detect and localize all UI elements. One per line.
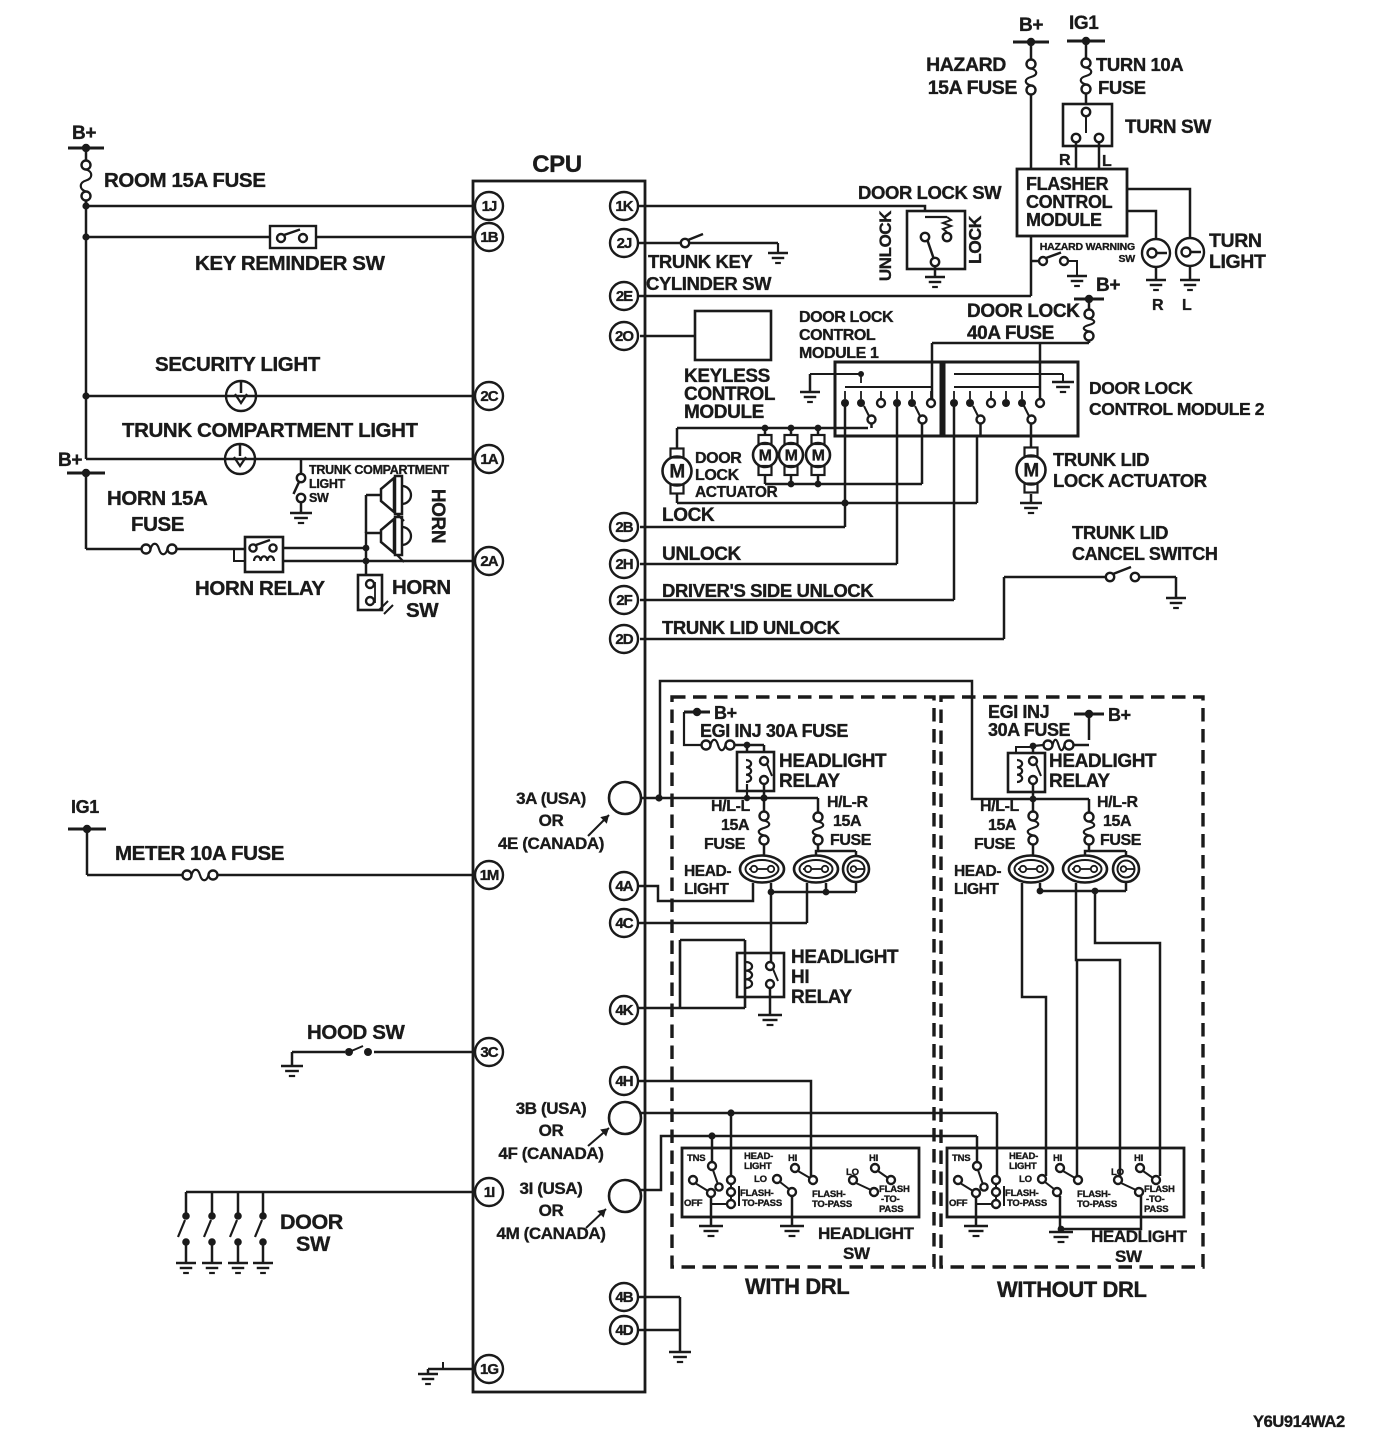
svg-text:LIGHT: LIGHT [954,881,999,898]
svg-text:UNLOCK: UNLOCK [876,210,895,281]
svg-text:4A: 4A [615,878,633,895]
svg-text:RELAY: RELAY [1049,771,1110,792]
svg-text:H/L-R: H/L-R [1097,794,1139,811]
svg-text:15A: 15A [988,817,1017,834]
svg-text:TNS: TNS [687,1153,705,1164]
svg-text:MODULE 1: MODULE 1 [799,345,879,362]
svg-text:WITHOUT DRL: WITHOUT DRL [997,1277,1147,1302]
svg-text:TO-PASS: TO-PASS [1077,1199,1117,1210]
svg-text:15A: 15A [1103,813,1132,830]
svg-text:3I (USA): 3I (USA) [520,1179,583,1198]
svg-text:DOOR LOCK: DOOR LOCK [1089,378,1193,398]
svg-text:RELAY: RELAY [791,987,852,1008]
svg-text:2H: 2H [615,556,632,573]
svg-text:L: L [1102,153,1112,170]
svg-text:DOOR: DOOR [695,450,742,467]
svg-text:SW: SW [843,1244,871,1263]
svg-text:2F: 2F [616,592,632,609]
svg-text:L: L [1182,297,1192,314]
svg-text:HORN 15A: HORN 15A [107,487,208,510]
svg-text:LO: LO [754,1174,767,1185]
svg-text:HEADLIGHT: HEADLIGHT [1049,751,1157,772]
svg-text:1A: 1A [480,451,498,468]
svg-text:15A: 15A [721,817,750,834]
svg-text:HAZARD WARNING: HAZARD WARNING [1040,241,1135,253]
svg-text:TNS: TNS [952,1153,970,1164]
svg-text:DOOR: DOOR [280,1210,344,1234]
svg-text:LOCK: LOCK [965,215,985,264]
svg-text:15A: 15A [833,813,862,830]
svg-text:TO-PASS: TO-PASS [742,1198,782,1209]
svg-text:TURN SW: TURN SW [1125,117,1211,138]
svg-text:2B: 2B [615,519,633,536]
svg-text:2J: 2J [617,235,632,252]
svg-text:4M (CANADA): 4M (CANADA) [497,1224,606,1243]
svg-text:B+: B+ [714,703,737,723]
svg-text:FUSE: FUSE [1098,77,1146,98]
svg-text:LIGHT: LIGHT [1009,1161,1037,1172]
svg-text:B+: B+ [1096,275,1120,296]
svg-text:B+: B+ [1019,15,1043,36]
svg-text:15A FUSE: 15A FUSE [928,77,1018,99]
svg-text:2A: 2A [480,553,498,570]
svg-text:2O: 2O [615,328,634,345]
svg-text:2E: 2E [616,288,633,305]
svg-text:3A (USA): 3A (USA) [516,789,586,808]
svg-text:1K: 1K [615,198,633,215]
svg-text:PASS: PASS [879,1204,903,1215]
svg-text:4E (CANADA): 4E (CANADA) [498,834,604,853]
svg-text:4D: 4D [615,1322,633,1339]
svg-text:TRUNK COMPARTMENT LIGHT: TRUNK COMPARTMENT LIGHT [122,419,418,442]
svg-text:B+: B+ [1108,705,1131,725]
svg-text:HEADLIGHT: HEADLIGHT [818,1224,915,1243]
svg-text:HORN: HORN [392,576,451,599]
svg-text:OFF: OFF [684,1198,703,1209]
svg-text:1J: 1J [482,198,497,215]
svg-text:TRUNK KEY: TRUNK KEY [648,251,753,272]
svg-text:M: M [1023,461,1038,482]
svg-text:R: R [1152,297,1164,314]
svg-text:H/L-R: H/L-R [827,794,869,811]
svg-text:R: R [1059,152,1071,169]
svg-text:H/L-L: H/L-L [711,798,751,815]
svg-text:LOCK: LOCK [695,467,740,484]
svg-text:DOOR LOCK SW: DOOR LOCK SW [858,182,1002,203]
svg-text:TO-PASS: TO-PASS [812,1199,852,1210]
svg-text:PASS: PASS [1144,1204,1168,1215]
svg-text:1G: 1G [480,1361,498,1378]
svg-text:4F (CANADA): 4F (CANADA) [498,1144,603,1163]
svg-text:KEY REMINDER SW: KEY REMINDER SW [195,252,386,275]
svg-text:MODULE: MODULE [1026,210,1102,230]
svg-text:LIGHT: LIGHT [309,477,346,491]
svg-text:TRUNK LID UNLOCK: TRUNK LID UNLOCK [662,617,841,638]
svg-text:2C: 2C [480,388,498,405]
svg-text:M: M [669,462,684,483]
svg-text:CPU: CPU [532,151,581,178]
svg-text:1M: 1M [480,867,499,884]
svg-text:TO-PASS: TO-PASS [1007,1198,1047,1209]
svg-text:DOOR LOCK: DOOR LOCK [967,301,1080,322]
svg-text:3C: 3C [480,1044,498,1061]
svg-text:HEAD-: HEAD- [684,863,731,880]
svg-text:HAZARD: HAZARD [926,54,1006,76]
svg-text:FUSE: FUSE [1100,832,1142,849]
svg-text:RELAY: RELAY [779,771,840,792]
svg-text:OR: OR [539,1201,564,1220]
svg-text:LIGHT: LIGHT [1209,251,1266,273]
svg-text:H/L-L: H/L-L [980,798,1020,815]
svg-text:HEADLIGHT: HEADLIGHT [779,751,887,772]
svg-text:LIGHT: LIGHT [744,1161,772,1172]
svg-text:CONTROL: CONTROL [799,327,876,344]
svg-text:HI: HI [869,1153,878,1164]
svg-text:HI: HI [1053,1153,1062,1164]
svg-text:HOOD SW: HOOD SW [307,1021,405,1044]
svg-text:IG1: IG1 [1069,13,1099,34]
svg-text:OR: OR [539,811,564,830]
svg-text:CYLINDER SW: CYLINDER SW [646,273,772,294]
svg-text:B+: B+ [58,450,82,471]
svg-text:30A FUSE: 30A FUSE [988,720,1071,740]
svg-text:SW: SW [296,1232,331,1256]
svg-text:EGI INJ 30A FUSE: EGI INJ 30A FUSE [700,721,848,741]
svg-text:FUSE: FUSE [704,836,746,853]
svg-text:TRUNK LID: TRUNK LID [1053,449,1149,470]
svg-text:4C: 4C [615,915,633,932]
svg-text:SECURITY LIGHT: SECURITY LIGHT [155,353,321,376]
svg-text:SW: SW [309,491,329,505]
svg-text:1B: 1B [480,229,498,246]
svg-text:HORN RELAY: HORN RELAY [195,577,325,600]
svg-text:2D: 2D [615,631,633,648]
svg-text:HI: HI [791,967,809,988]
svg-text:HEADLIGHT: HEADLIGHT [791,947,899,968]
svg-text:B+: B+ [72,123,96,144]
svg-text:FLASHER: FLASHER [1026,174,1109,194]
svg-text:40A FUSE: 40A FUSE [967,323,1054,344]
svg-text:ACTUATOR: ACTUATOR [695,484,778,501]
svg-text:HI: HI [1134,1153,1143,1164]
svg-text:DRIVER'S SIDE UNLOCK: DRIVER'S SIDE UNLOCK [662,580,874,601]
svg-text:M: M [759,447,772,464]
svg-text:UNLOCK: UNLOCK [662,544,742,565]
svg-text:ROOM 15A FUSE: ROOM 15A FUSE [104,169,265,192]
svg-text:MODULE: MODULE [684,402,764,423]
svg-text:LIGHT: LIGHT [684,881,729,898]
svg-text:FUSE: FUSE [974,836,1016,853]
svg-text:DOOR LOCK: DOOR LOCK [799,309,894,326]
svg-text:CANCEL SWITCH: CANCEL SWITCH [1072,544,1217,564]
svg-text:4H: 4H [615,1073,632,1090]
svg-text:FUSE: FUSE [830,832,872,849]
svg-text:CONTROL: CONTROL [1026,192,1113,212]
svg-text:HORN: HORN [427,489,448,543]
svg-text:EGI INJ: EGI INJ [988,702,1049,722]
svg-text:TURN: TURN [1209,230,1262,252]
svg-text:TRUNK COMPARTMENT: TRUNK COMPARTMENT [309,463,449,477]
svg-text:LOCK ACTUATOR: LOCK ACTUATOR [1053,470,1207,491]
svg-text:OR: OR [539,1121,564,1140]
svg-text:M: M [785,447,798,464]
svg-text:3B (USA): 3B (USA) [516,1099,586,1118]
svg-text:LO: LO [1019,1174,1032,1185]
svg-text:SW: SW [1115,1247,1143,1266]
svg-text:4B: 4B [615,1289,633,1306]
svg-text:FUSE: FUSE [131,513,184,536]
svg-text:M: M [812,447,825,464]
svg-text:OFF: OFF [949,1198,968,1209]
svg-text:1I: 1I [484,1184,495,1201]
svg-text:SW: SW [1118,253,1135,265]
svg-text:CONTROL MODULE 2: CONTROL MODULE 2 [1089,399,1265,419]
svg-text:SW: SW [406,599,439,622]
svg-text:HEAD-: HEAD- [954,863,1001,880]
svg-text:IG1: IG1 [71,797,99,817]
svg-text:LOCK: LOCK [662,505,715,526]
svg-text:HEADLIGHT: HEADLIGHT [1091,1227,1188,1246]
svg-text:TRUNK LID: TRUNK LID [1072,522,1168,543]
svg-text:TURN 10A: TURN 10A [1096,54,1183,75]
svg-text:4K: 4K [615,1002,633,1019]
svg-text:HI: HI [788,1153,797,1164]
svg-text:WITH DRL: WITH DRL [745,1274,849,1299]
svg-text:METER 10A FUSE: METER 10A FUSE [115,842,284,865]
svg-text:Y6U914WA2: Y6U914WA2 [1253,1413,1345,1431]
